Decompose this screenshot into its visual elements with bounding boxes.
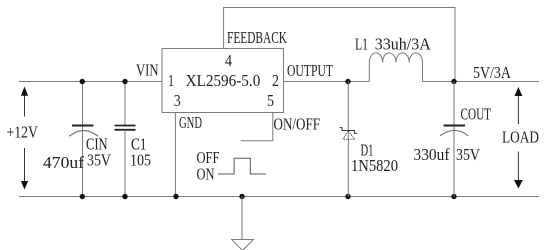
wire: GND pin 3 down bbox=[174, 113, 176, 197]
svg-text:5: 5 bbox=[267, 91, 274, 110]
svg-text:GND: GND bbox=[179, 113, 202, 132]
svg-text:330uf: 330uf bbox=[414, 145, 450, 164]
wire: feedback loop top bbox=[224, 8, 455, 82]
LOAD up arrow bbox=[515, 87, 523, 124]
+12V up arrow bbox=[21, 87, 28, 117]
capacitor CIN bbox=[69, 82, 98, 197]
svg-text:+12V: +12V bbox=[7, 123, 39, 142]
svg-text:ON/OFF: ON/OFF bbox=[274, 115, 321, 134]
svg-text:105: 105 bbox=[130, 151, 151, 170]
svg-text:2: 2 bbox=[272, 71, 279, 90]
node: diode top junction bbox=[345, 79, 350, 84]
svg-text:OUTPUT: OUTPUT bbox=[287, 61, 333, 80]
node: COUT bottom junction bbox=[451, 194, 456, 199]
+12V down arrow bbox=[21, 148, 28, 190]
svg-text:4: 4 bbox=[225, 51, 232, 70]
node: C1 top junction bbox=[122, 79, 127, 84]
wire: OUTPUT rail (IC to inductor) bbox=[284, 81, 370, 83]
svg-text:35V: 35V bbox=[87, 151, 112, 170]
wire: ground rail (bottom) bbox=[19, 196, 539, 198]
node: ground symbol junction bbox=[239, 194, 244, 199]
inductor L1 bbox=[369, 53, 422, 82]
LOAD down arrow bbox=[514, 152, 523, 189]
node: GND pin bottom junction bbox=[173, 194, 178, 199]
svg-text:L1: L1 bbox=[355, 35, 368, 54]
svg-text:3: 3 bbox=[174, 91, 181, 110]
svg-text:ON: ON bbox=[197, 165, 215, 184]
svg-text:XL2596-5.0: XL2596-5.0 bbox=[186, 71, 261, 90]
svg-text:33uh/3A: 33uh/3A bbox=[375, 35, 432, 54]
svg-text:1: 1 bbox=[168, 71, 174, 90]
node: diode bottom junction bbox=[345, 194, 350, 199]
svg-text:1N5820: 1N5820 bbox=[351, 156, 398, 175]
node: C1 bottom junction bbox=[122, 194, 127, 199]
diode D1 1N5820 (schottky) bbox=[340, 82, 357, 197]
capacitor C1 bbox=[115, 82, 136, 197]
svg-text:35V: 35V bbox=[456, 145, 481, 164]
node: CIN bottom junction bbox=[80, 194, 85, 199]
wire: ON/OFF pin 5 bbox=[241, 113, 273, 141]
node: output junction (COUT/feedback) bbox=[451, 79, 456, 84]
svg-text:LOAD: LOAD bbox=[502, 128, 539, 147]
IC U1: buck regulator XL2596-5.0 box bbox=[162, 49, 284, 113]
svg-text:VIN: VIN bbox=[136, 61, 159, 80]
capacitor COUT bbox=[440, 82, 468, 197]
ground bbox=[232, 197, 254, 250]
svg-text:5V/3A: 5V/3A bbox=[473, 63, 512, 82]
svg-text:470uf: 470uf bbox=[43, 153, 84, 172]
wire: +12V input rail (top left) bbox=[19, 81, 162, 83]
node: CIN top junction bbox=[80, 79, 85, 84]
svg-text:FEEDBACK: FEEDBACK bbox=[227, 28, 287, 47]
wire: 5V output rail bbox=[423, 81, 540, 83]
control pulse waveform bbox=[218, 158, 266, 174]
svg-text:COUT: COUT bbox=[461, 105, 492, 124]
